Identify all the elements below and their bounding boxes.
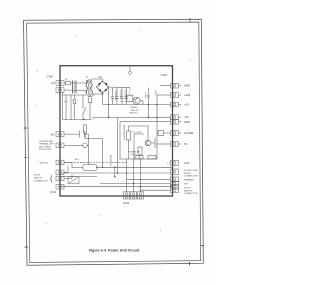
frame tick left mid	[24, 156, 27, 159]
svg-text:CN4: CN4	[47, 75, 53, 79]
wire dashed drop	[171, 148, 173, 160]
svg-text:CN2: CN2	[123, 201, 129, 205]
svg-text:KEY: KEY	[184, 184, 189, 186]
svg-text:CONNECTOR: CONNECTOR	[184, 193, 198, 195]
wire rail key	[100, 183, 171, 185]
svg-text:DOOR: DOOR	[184, 188, 191, 190]
pin KEY	[171, 181, 179, 186]
wire rail e	[140, 189, 171, 191]
capacitor C3	[121, 88, 124, 105]
pin AUX	[167, 161, 179, 166]
pin FDD	[171, 169, 179, 174]
wire primary top	[85, 80, 88, 83]
wire mid drop B	[88, 134, 90, 164]
thermal TH1	[68, 131, 89, 138]
connector CN4 pin 2	[56, 88, 64, 93]
transformer T1 secondary	[91, 80, 93, 94]
junction dots bottom	[96, 167, 141, 188]
wire pin7 feed	[157, 143, 171, 145]
transformer T1 primary	[86, 80, 88, 94]
capacitor C2	[116, 88, 119, 105]
svg-text:IC1 CONT: IC1 CONT	[133, 132, 143, 134]
frame tick left upper	[24, 127, 27, 130]
svg-text:DRIVE: DRIVE	[184, 173, 191, 175]
transistor Q2	[145, 140, 151, 146]
wire filter top rail	[63, 94, 96, 96]
choke L1 winding a	[73, 81, 77, 94]
varistor ZNR	[73, 95, 76, 120]
schematic main box	[60, 66, 173, 196]
svg-text:REG TR: REG TR	[131, 110, 139, 112]
relay RL1	[64, 163, 173, 171]
junction dots	[102, 93, 158, 118]
vertical tiny labels	[109, 90, 156, 166]
wire rail motor	[64, 162, 127, 164]
svg-text:RESISTOR: RESISTOR	[109, 155, 111, 166]
labels	[47, 73, 167, 161]
resistor R3	[138, 147, 142, 155]
svg-text:AC: AC	[51, 81, 55, 85]
svg-text:GND: GND	[184, 120, 190, 124]
bridge rectifier DB1	[97, 81, 109, 93]
wire mid drop C	[114, 167, 116, 176]
wire AC live input	[64, 82, 86, 84]
wire CN2 drop 3	[140, 159, 142, 192]
wire rail speaker	[60, 172, 171, 174]
connector CN1 pin door a	[56, 165, 68, 174]
svg-text:CONNECTOR: CONNECTOR	[184, 176, 198, 178]
pin 5V	[171, 102, 182, 107]
wire rail c	[127, 178, 171, 180]
connector CN1 pin door c	[56, 184, 64, 189]
wire AC neutral input	[64, 89, 86, 92]
wire right vertical bus B	[156, 95, 158, 122]
wire pin1 feed	[160, 85, 171, 87]
capacitor C0 box	[88, 95, 92, 120]
protector P1	[68, 144, 83, 146]
svg-text:(+12V): (+12V)	[144, 92, 146, 99]
wire rail door	[60, 186, 172, 188]
wire bridge minus drop	[102, 93, 104, 105]
capacitor CX1	[65, 95, 68, 120]
frame tick right	[201, 244, 204, 247]
svg-text:FLOPPY DISK: FLOPPY DISK	[184, 170, 198, 172]
wire C6 link	[85, 134, 102, 168]
alarm component	[157, 131, 172, 161]
wire relay out	[97, 166, 173, 168]
capacitor C4	[125, 88, 128, 105]
svg-text:COOLING FAN: COOLING FAN	[39, 140, 53, 143]
junction dot mid	[83, 119, 118, 174]
svg-text:+5V: +5V	[184, 103, 189, 107]
svg-text:SWITCH: SWITCH	[34, 177, 43, 179]
pin GND b	[171, 120, 182, 125]
svg-text:(REG IC): (REG IC)	[130, 113, 139, 115]
scan speckles	[35, 30, 191, 231]
wire Q1 emitter	[140, 101, 143, 105]
frame tick bottom	[188, 262, 191, 265]
resistor R2	[127, 131, 131, 140]
transistor Q1	[133, 97, 140, 104]
wire aux feed	[63, 162, 65, 164]
svg-text:MOTOR: MOTOR	[40, 163, 48, 165]
pin 0V	[171, 142, 182, 147]
wire rail aux-b	[60, 176, 97, 178]
svg-text:CN3: CN3	[161, 73, 167, 77]
left margin labels	[34, 132, 129, 205]
pin GND	[171, 83, 182, 88]
svg-text:AUX: AUX	[184, 161, 190, 165]
svg-text:ALARM: ALARM	[184, 131, 194, 135]
pin 5V b	[171, 115, 182, 120]
svg-text:REGULATOR IC: REGULATOR IC	[123, 125, 126, 141]
switch S1	[83, 95, 86, 120]
small box K1	[135, 156, 143, 159]
door switch box	[68, 177, 79, 184]
svg-text:Figure 6-4. Power Unit Circuit: Figure 6-4. Power Unit Circuit	[89, 249, 140, 253]
page frame inner border	[27, 22, 201, 262]
svg-text:0V: 0V	[184, 142, 187, 146]
wire mid drop A	[117, 117, 119, 173]
svg-text:CN1: CN1	[50, 190, 56, 194]
wire cap feed drop	[108, 88, 110, 118]
capacitor C5	[147, 88, 150, 105]
pin SPEAKER	[171, 177, 179, 182]
wire secondary top to bridge	[92, 79, 103, 81]
capacitor C1	[111, 88, 114, 105]
page frame outer border	[24, 19, 204, 265]
svg-text:SWITCH: SWITCH	[184, 190, 193, 192]
right pin labels	[184, 84, 198, 195]
pin ALARM	[171, 131, 182, 136]
wire R1 feed	[120, 88, 130, 102]
connector CN1 pin AC	[56, 132, 68, 137]
regulator sub-box U1	[120, 122, 157, 160]
svg-text:THERMAL UNIT: THERMAL UNIT	[39, 143, 54, 146]
wire corner drop	[171, 190, 173, 196]
connector CN1 pin fan	[56, 143, 68, 148]
pin DOOR a	[171, 184, 179, 189]
svg-text:2SD880: 2SD880	[130, 107, 138, 109]
frame tick top	[189, 18, 192, 21]
svg-text:+5V: +5V	[184, 115, 189, 119]
diode D5	[151, 138, 155, 148]
wire alarm feed	[157, 132, 171, 134]
choke L1 core	[73, 81, 75, 93]
connector CN2 socket 3	[137, 192, 143, 199]
svg-text:PROTECTOR: PROTECTOR	[39, 149, 52, 151]
pin 24V	[171, 93, 182, 98]
jumper node J1	[129, 66, 131, 72]
svg-text:C2 470uF: C2 470uF	[119, 90, 121, 100]
wire bridge plus rail	[109, 86, 131, 89]
connector CN2 socket 2	[130, 192, 136, 199]
capacitor C6 capsule	[84, 125, 87, 134]
wire CN2 drop 1	[126, 159, 128, 192]
wire minus rail	[103, 104, 171, 106]
frame tick left lower	[25, 246, 28, 249]
wire U1 internal b	[129, 134, 145, 159]
bottom rails	[60, 159, 172, 196]
wire filter left drop	[62, 92, 64, 120]
svg-text:C1 1000uF: C1 1000uF	[114, 90, 116, 101]
connector CN1 pin motor	[56, 160, 64, 165]
wire filter-to-rail link	[92, 118, 94, 120]
svg-text:(+5V): (+5V)	[154, 90, 156, 95]
capacitor CX2	[70, 95, 73, 120]
resistor R1 box	[126, 95, 133, 101]
wire primary bottom	[85, 91, 88, 95]
small box K2	[148, 156, 156, 159]
svg-text:CONT: CONT	[130, 154, 136, 156]
connector CN2 socket 1	[123, 192, 129, 199]
transformer T1 core	[89, 79, 90, 95]
svg-text:AC: AC	[51, 132, 55, 136]
svg-text:CONNECTOR: CONNECTOR	[34, 180, 48, 182]
fuse F1	[66, 81, 71, 85]
jumper J1 circle	[129, 71, 132, 74]
connector CN1 pin door b	[56, 175, 72, 181]
wire U1 internal a	[129, 126, 149, 140]
svg-text:C3 470uF: C3 470uF	[124, 90, 126, 100]
wire right vertical bus A	[148, 105, 150, 118]
wire secondary bottom to bridge	[92, 93, 103, 94]
svg-text:+24V: +24V	[184, 93, 191, 97]
svg-text:DOOR: DOOR	[34, 174, 41, 176]
connector CN4 pin 1	[56, 81, 64, 86]
wire pin2 feed	[157, 94, 171, 96]
svg-text:GND: GND	[184, 84, 190, 88]
svg-text:SPEAKER: SPEAKER	[184, 178, 194, 181]
svg-text:MOTOR AND: MOTOR AND	[39, 145, 52, 148]
wire filter bottom rail	[63, 119, 92, 121]
wire long rail 12V	[93, 116, 171, 118]
wire CN2 drop 2	[133, 159, 135, 192]
wire rail to pin5	[157, 121, 171, 123]
pin DOOR b	[171, 188, 179, 193]
